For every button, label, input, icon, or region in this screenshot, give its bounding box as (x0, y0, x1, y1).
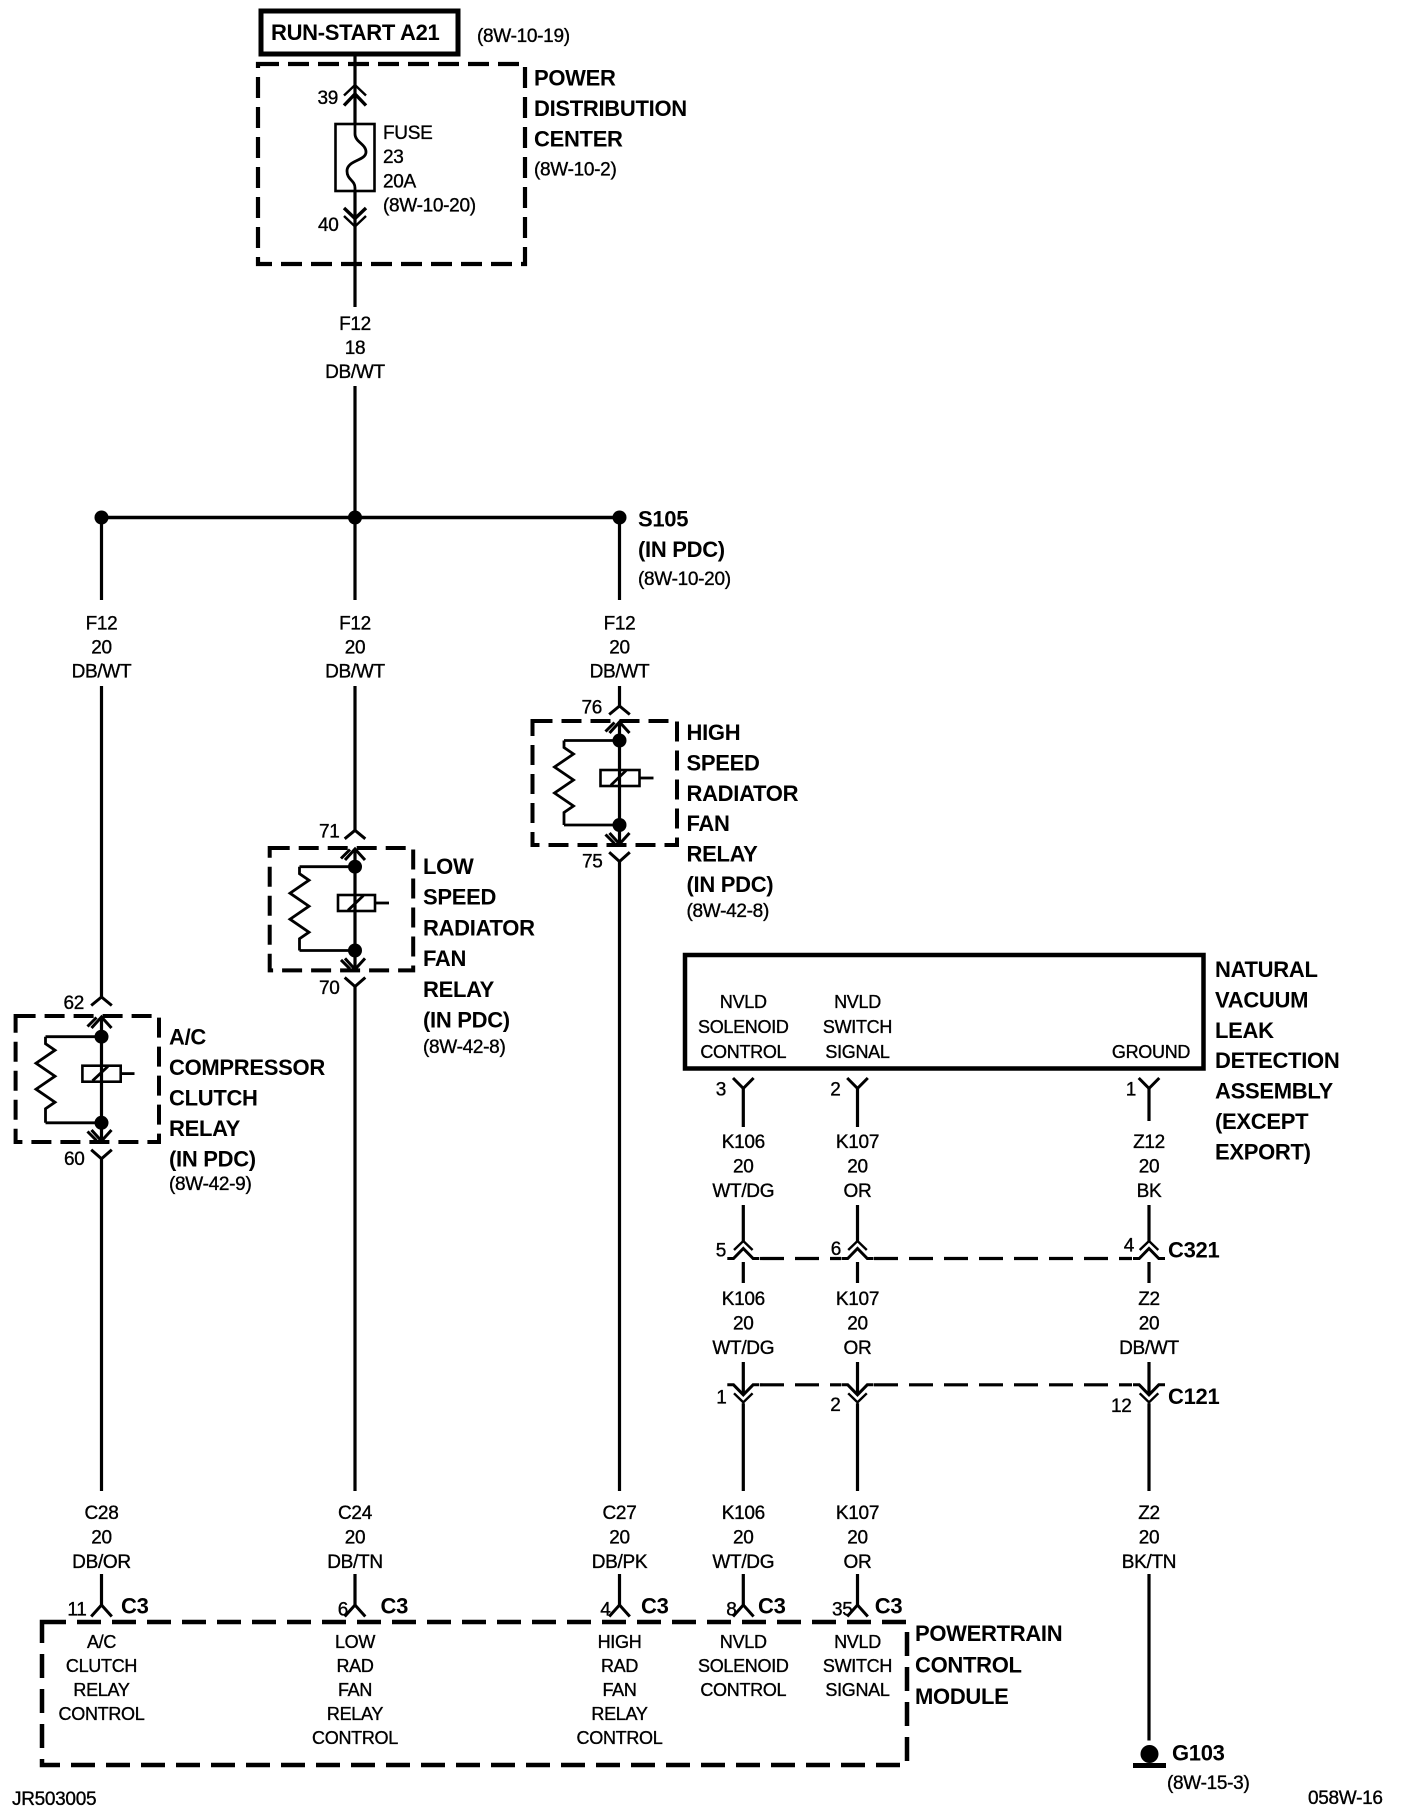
wire to splice bus (353, 386, 356, 518)
svg-text:20: 20 (609, 638, 630, 659)
label HIGH RAD FAN RELAY CONTROL (577, 1632, 663, 1748)
svg-text:FAN: FAN (602, 1680, 636, 1700)
svg-text:POWER: POWER (534, 66, 616, 91)
svg-text:CLUTCH: CLUTCH (169, 1086, 258, 1111)
svg-text:C3: C3 (641, 1594, 669, 1619)
svg-text:RELAY: RELAY (591, 1704, 647, 1724)
svg-text:DB/PK: DB/PK (592, 1552, 648, 1573)
relay coil resistor (555, 741, 574, 826)
label K107 20 OR (836, 1503, 879, 1573)
relay dashed box (16, 1016, 159, 1142)
C321 pin 6 (831, 1239, 874, 1260)
svg-text:C3: C3 (875, 1594, 903, 1619)
svg-text:DB/OR: DB/OR (72, 1552, 131, 1573)
svg-text:SPEED: SPEED (423, 885, 496, 910)
pin 8 C3 (726, 1594, 785, 1621)
wire into pin 6 (353, 1574, 356, 1605)
svg-text:CENTER: CENTER (534, 127, 623, 152)
junction dot (613, 734, 627, 748)
svg-text:SIGNAL: SIGNAL (825, 1042, 890, 1062)
junction dot (95, 1116, 109, 1130)
svg-text:CONTROL: CONTROL (577, 1728, 663, 1748)
wire below C321 pin5 (742, 1262, 745, 1283)
wire to C321 pin6 (856, 1205, 859, 1241)
svg-text:76: 76 (581, 698, 602, 719)
junction dot (95, 1030, 109, 1044)
junction dot left (95, 511, 109, 525)
exit arrow (341, 958, 365, 969)
wire pin75 down (618, 862, 621, 1492)
svg-text:4: 4 (1124, 1236, 1135, 1257)
wire below C321 pin6 (856, 1262, 859, 1283)
svg-text:20: 20 (847, 1528, 868, 1549)
wire right branch (618, 518, 621, 601)
svg-text:70: 70 (319, 978, 340, 999)
svg-text:20: 20 (609, 1528, 630, 1549)
svg-text:DB/WT: DB/WT (1119, 1338, 1179, 1359)
svg-text:LOW: LOW (423, 854, 474, 879)
svg-text:20: 20 (91, 638, 112, 659)
svg-text:20: 20 (733, 1157, 754, 1178)
svg-text:6: 6 (831, 1239, 841, 1260)
C321 pin 5 (716, 1241, 760, 1262)
label K106 20 WT/DG (712, 1132, 774, 1202)
wire fuse to pin 40 (353, 191, 356, 307)
svg-text:DB/WT: DB/WT (72, 662, 132, 683)
svg-text:20A: 20A (383, 172, 417, 193)
pin 60 connector (64, 1149, 112, 1170)
svg-text:058W-16: 058W-16 (1308, 1788, 1383, 1809)
power distribution center dashed box (258, 64, 525, 264)
label Z12 20 BK (1133, 1132, 1165, 1202)
svg-text:71: 71 (319, 822, 340, 843)
svg-text:20: 20 (1139, 1157, 1160, 1178)
wire into pin 35 (856, 1574, 859, 1605)
coil bottom wire (564, 824, 620, 827)
wire middle branch (353, 518, 356, 601)
wire below C121 pin1 (742, 1403, 745, 1491)
svg-text:(8W-15-3): (8W-15-3) (1167, 1773, 1249, 1794)
label NVLD SOLENOID CONTROL (698, 1632, 789, 1700)
svg-text:60: 60 (64, 1149, 85, 1170)
svg-text:C321: C321 (1168, 1238, 1219, 1263)
svg-text:HIGH: HIGH (598, 1632, 642, 1652)
C121 pin 12 (1111, 1385, 1165, 1417)
entry arrow (88, 1017, 112, 1028)
wire left branch (100, 518, 103, 601)
pin 62 connector (63, 993, 111, 1014)
svg-text:40: 40 (318, 215, 339, 236)
svg-text:K106: K106 (722, 1132, 765, 1153)
connector C321 dashed line (760, 1257, 1132, 1260)
svg-text:JR503005: JR503005 (12, 1789, 96, 1810)
svg-text:SOLENOID: SOLENOID (698, 1656, 789, 1676)
svg-text:NVLD: NVLD (720, 992, 767, 1012)
junction dot middle (348, 511, 362, 525)
splice bus S105 (102, 516, 620, 520)
svg-text:RADIATOR: RADIATOR (687, 781, 799, 806)
PCM dashed box (42, 1622, 907, 1765)
wire pin70 down (353, 987, 356, 1492)
fuse 23 20A (336, 124, 375, 191)
svg-text:(EXCEPT: (EXCEPT (1215, 1109, 1309, 1134)
label POWER DISTRIBUTION CENTER (534, 66, 687, 181)
svg-text:RELAY: RELAY (169, 1116, 241, 1141)
wire pin3 stem (742, 1088, 745, 1127)
svg-text:1: 1 (716, 1388, 726, 1409)
svg-text:K107: K107 (836, 1132, 879, 1153)
svg-text:OR: OR (844, 1552, 872, 1573)
wire to pin 71 (353, 686, 356, 830)
svg-text:35: 35 (832, 1600, 853, 1621)
svg-text:NATURAL: NATURAL (1215, 957, 1318, 982)
svg-text:6: 6 (338, 1600, 348, 1621)
svg-text:DB/WT: DB/WT (325, 362, 385, 383)
svg-text:20: 20 (847, 1314, 868, 1335)
wire to pin 62 (100, 686, 103, 997)
label K107 20 OR (836, 1132, 879, 1202)
svg-text:8: 8 (726, 1600, 736, 1621)
svg-text:CONTROL: CONTROL (700, 1042, 786, 1062)
svg-text:CONTROL: CONTROL (700, 1680, 786, 1700)
svg-text:OR: OR (844, 1338, 872, 1359)
svg-text:CLUTCH: CLUTCH (66, 1656, 137, 1676)
svg-text:SWITCH: SWITCH (823, 1656, 892, 1676)
label A/C COMPRESSOR CLUTCH RELAY (169, 1025, 325, 1195)
svg-text:DB/WT: DB/WT (590, 662, 650, 683)
label A/C CLUTCH RELAY CONTROL (59, 1632, 145, 1724)
wire to C121 pin1 (742, 1362, 745, 1394)
svg-text:75: 75 (582, 852, 603, 873)
NVLD assembly box (685, 955, 1204, 1069)
svg-text:RADIATOR: RADIATOR (423, 915, 535, 940)
svg-text:WT/DG: WT/DG (712, 1338, 774, 1359)
relay contact (82, 1066, 134, 1082)
svg-text:F12: F12 (339, 614, 371, 635)
fuse value labels (383, 123, 476, 217)
svg-text:Z2: Z2 (1138, 1503, 1160, 1524)
wire to ground (1147, 1574, 1150, 1741)
svg-text:A/C: A/C (87, 1632, 116, 1652)
wire pin60 down (100, 1159, 103, 1491)
wire into pin 8 (742, 1574, 745, 1605)
svg-text:SWITCH: SWITCH (823, 1017, 892, 1037)
svg-text:F12: F12 (604, 614, 636, 635)
C121 pin 2 (830, 1385, 873, 1416)
label C27 20 DB/PK (592, 1503, 648, 1573)
svg-text:MODULE: MODULE (915, 1684, 1009, 1709)
svg-text:RUN-START A21: RUN-START A21 (271, 20, 440, 45)
svg-text:GROUND: GROUND (1112, 1042, 1190, 1062)
pin 40 (318, 208, 366, 236)
svg-text:Z12: Z12 (1133, 1132, 1165, 1153)
svg-text:RELAY: RELAY (327, 1704, 383, 1724)
svg-text:RELAY: RELAY (423, 977, 495, 1002)
svg-text:K106: K106 (722, 1289, 765, 1310)
label F12 20 DB/WT right (590, 614, 650, 683)
label NVLD SWITCH SIGNAL (823, 1632, 892, 1700)
svg-text:RELAY: RELAY (687, 842, 759, 867)
ground G103 (1133, 1741, 1249, 1795)
label LOW SPEED RADIATOR FAN RELAY (423, 854, 535, 1058)
svg-text:(8W-10-19): (8W-10-19) (477, 26, 570, 47)
relay dashed box (270, 848, 414, 970)
junction dot (348, 860, 362, 874)
wire below C121 pin12 (1147, 1403, 1150, 1491)
svg-text:S105: S105 (638, 507, 688, 532)
label LOW RAD FAN RELAY CONTROL (312, 1632, 398, 1748)
svg-text:18: 18 (345, 338, 366, 359)
svg-text:C24: C24 (338, 1503, 373, 1524)
wire to pin 76 (618, 686, 621, 706)
label C24 20 DB/TN (327, 1503, 383, 1573)
svg-text:SOLENOID: SOLENOID (698, 1017, 789, 1037)
svg-text:BK: BK (1137, 1181, 1162, 1202)
relay coil resistor (290, 867, 309, 951)
wire to C121 pin12 (1147, 1362, 1150, 1394)
svg-text:1: 1 (1126, 1080, 1136, 1101)
svg-text:4: 4 (600, 1600, 611, 1621)
svg-text:EXPORT): EXPORT) (1215, 1139, 1311, 1164)
svg-text:NVLD: NVLD (720, 1632, 767, 1652)
svg-text:2: 2 (830, 1395, 840, 1416)
svg-text:VACUUM: VACUUM (1215, 987, 1308, 1012)
svg-text:ASSEMBLY: ASSEMBLY (1215, 1079, 1333, 1104)
relay contact (338, 895, 389, 911)
svg-text:F12: F12 (339, 314, 371, 335)
svg-text:NVLD: NVLD (834, 1632, 881, 1652)
svg-text:(8W-42-9): (8W-42-9) (169, 1174, 251, 1195)
pin 71 connector (319, 822, 365, 843)
svg-text:RAD: RAD (601, 1656, 638, 1676)
svg-text:C28: C28 (85, 1503, 119, 1524)
svg-text:CONTROL: CONTROL (312, 1728, 398, 1748)
wire pin1 stem (1147, 1088, 1150, 1121)
pin 2 (830, 1078, 868, 1101)
C121 pin 1 (716, 1385, 759, 1409)
coil top wire (564, 739, 620, 742)
svg-text:K107: K107 (836, 1289, 879, 1310)
svg-text:FAN: FAN (338, 1680, 372, 1700)
pin 6 C3 (338, 1594, 408, 1621)
pin 76 connector (581, 698, 629, 719)
svg-text:5: 5 (716, 1241, 726, 1262)
wire to C321 pin4 (1147, 1205, 1150, 1241)
svg-text:DB/WT: DB/WT (325, 662, 385, 683)
svg-text:C3: C3 (758, 1594, 786, 1619)
svg-text:C121: C121 (1168, 1384, 1219, 1409)
label F12 20 DB/WT left (72, 614, 132, 683)
svg-text:20: 20 (345, 638, 366, 659)
junction dot (348, 944, 362, 958)
relay contact (601, 770, 654, 786)
pin 35 C3 (832, 1594, 902, 1621)
svg-text:CONTROL: CONTROL (59, 1704, 145, 1724)
svg-text:(8W-10-20): (8W-10-20) (638, 569, 731, 590)
svg-text:(IN PDC): (IN PDC) (687, 872, 774, 897)
label NVLD SWITCH SIGNAL (823, 992, 892, 1062)
svg-text:3: 3 (716, 1080, 726, 1101)
wire below C121 pin2 (856, 1403, 859, 1491)
wire through relay (618, 722, 621, 844)
svg-text:23: 23 (383, 147, 404, 168)
label NATURAL VACUUM LEAK DETECTION ASSEMBLY (1215, 957, 1339, 1164)
label K106 20 WT/DG (712, 1503, 774, 1573)
svg-text:(8W-10-20): (8W-10-20) (383, 196, 476, 217)
wire pin2 stem (856, 1088, 859, 1127)
label F12 20 DB/WT middle (325, 614, 385, 683)
svg-text:62: 62 (63, 993, 84, 1014)
junction dot (613, 818, 627, 832)
svg-text:20: 20 (1139, 1528, 1160, 1549)
svg-text:DETECTION: DETECTION (1215, 1048, 1339, 1073)
svg-text:G103: G103 (1172, 1741, 1225, 1766)
label K106 20 WT/DG (712, 1289, 774, 1359)
svg-text:COMPRESSOR: COMPRESSOR (169, 1055, 325, 1080)
wire below C321 pin4 (1147, 1262, 1150, 1283)
coil bottom wire (300, 949, 356, 952)
svg-text:C3: C3 (381, 1594, 409, 1619)
junction dot right S105 (613, 511, 627, 525)
wire label F12 18 DB/WT (325, 314, 385, 383)
coil top wire (300, 865, 356, 868)
svg-text:39: 39 (317, 88, 338, 109)
label Z2 20 DB/WT (1119, 1289, 1179, 1359)
pin 39 (317, 85, 366, 109)
svg-text:CONTROL: CONTROL (915, 1653, 1022, 1678)
entry arrow (341, 849, 365, 860)
svg-text:F12: F12 (86, 614, 118, 635)
svg-text:12: 12 (1111, 1396, 1132, 1417)
svg-text:(IN PDC): (IN PDC) (423, 1008, 510, 1033)
svg-text:NVLD: NVLD (834, 992, 881, 1012)
svg-text:(IN PDC): (IN PDC) (169, 1147, 256, 1172)
svg-text:2: 2 (830, 1080, 840, 1101)
svg-text:(IN PDC): (IN PDC) (638, 537, 725, 562)
pin 3 (716, 1078, 754, 1101)
connector C121 dashed line (760, 1383, 1132, 1386)
fusible link box RUN-START A21 (261, 11, 458, 54)
svg-text:BK/TN: BK/TN (1122, 1552, 1176, 1573)
coil bottom wire (46, 1121, 102, 1124)
svg-text:SPEED: SPEED (687, 750, 760, 775)
pin 75 connector (582, 852, 630, 873)
svg-text:20: 20 (1139, 1314, 1160, 1335)
exit arrow (606, 833, 630, 844)
svg-text:C27: C27 (603, 1503, 637, 1524)
coil top wire (46, 1035, 102, 1038)
label NVLD SOLENOID CONTROL (698, 992, 789, 1062)
svg-text:20: 20 (733, 1528, 754, 1549)
label Z2 20 BK/TN (1122, 1503, 1176, 1573)
svg-text:(8W-42-8): (8W-42-8) (687, 901, 769, 922)
wire from A21 to fuse (353, 56, 356, 124)
svg-text:20: 20 (91, 1528, 112, 1549)
svg-text:FAN: FAN (687, 811, 730, 836)
svg-text:20: 20 (345, 1528, 366, 1549)
pin 11 C3 (67, 1594, 148, 1621)
label S105 (638, 507, 731, 591)
svg-text:20: 20 (847, 1157, 868, 1178)
pin 70 connector (319, 978, 365, 1000)
wire through relay (353, 849, 356, 969)
label POWERTRAIN CONTROL MODULE (915, 1621, 1062, 1709)
svg-text:WT/DG: WT/DG (712, 1552, 774, 1573)
relay dashed box (533, 721, 678, 845)
svg-text:WT/DG: WT/DG (712, 1181, 774, 1202)
svg-text:FUSE: FUSE (383, 123, 432, 144)
C321 pin 4 (1124, 1236, 1165, 1259)
svg-text:OR: OR (844, 1181, 872, 1202)
wire through relay (100, 1017, 103, 1141)
svg-text:20: 20 (733, 1314, 754, 1335)
pin 1 (1126, 1078, 1160, 1101)
wire to C121 pin2 (856, 1362, 859, 1394)
svg-text:(8W-42-8): (8W-42-8) (423, 1037, 505, 1058)
svg-text:RAD: RAD (336, 1656, 373, 1676)
label C28 20 DB/OR (72, 1503, 131, 1573)
svg-text:11: 11 (67, 1600, 86, 1621)
svg-text:C3: C3 (121, 1594, 149, 1619)
relay coil resistor (36, 1037, 55, 1123)
wire to C321 pin5 (742, 1205, 745, 1241)
label K107 20 OR (836, 1289, 879, 1359)
svg-text:LEAK: LEAK (1215, 1018, 1274, 1043)
svg-text:POWERTRAIN: POWERTRAIN (915, 1621, 1062, 1646)
svg-text:A/C: A/C (169, 1025, 206, 1050)
wire into pin 11 (100, 1574, 103, 1605)
label HIGH SPEED RADIATOR FAN RELAY (687, 720, 799, 922)
entry arrow (606, 722, 630, 733)
svg-text:Z2: Z2 (1138, 1289, 1160, 1310)
svg-text:(8W-10-2): (8W-10-2) (534, 160, 616, 181)
svg-text:DISTRIBUTION: DISTRIBUTION (534, 96, 687, 121)
svg-text:LOW: LOW (335, 1632, 375, 1652)
svg-text:SIGNAL: SIGNAL (825, 1680, 890, 1700)
svg-text:HIGH: HIGH (687, 720, 741, 745)
svg-text:DB/TN: DB/TN (327, 1552, 383, 1573)
svg-text:RELAY: RELAY (73, 1680, 129, 1700)
svg-text:K107: K107 (836, 1503, 879, 1524)
pin 4 C3 (600, 1594, 668, 1621)
exit arrow (88, 1130, 112, 1141)
svg-text:FAN: FAN (423, 946, 466, 971)
wire into pin 4 (618, 1574, 621, 1605)
svg-text:K106: K106 (722, 1503, 765, 1524)
